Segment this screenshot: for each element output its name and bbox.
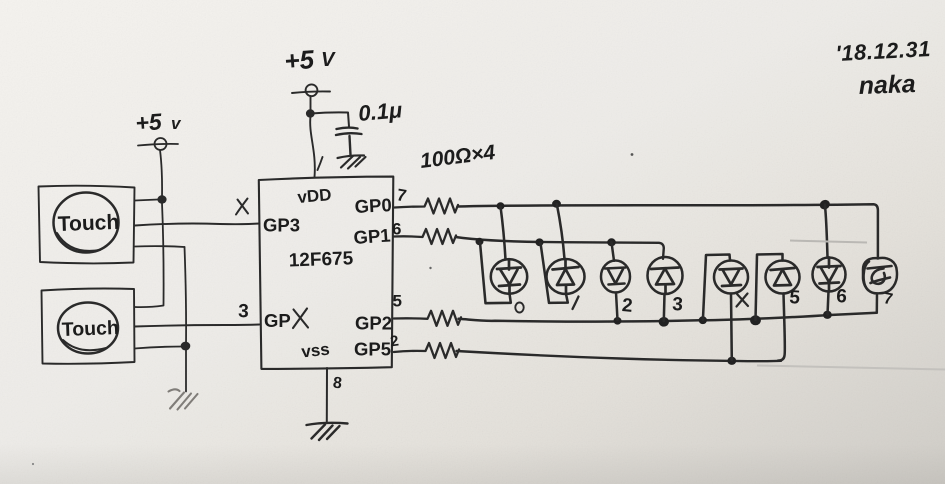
pin number 1 bbox=[318, 157, 323, 170]
pin number 3 bbox=[238, 301, 249, 322]
LED 6 number bbox=[836, 286, 848, 308]
svg-text:+5: +5 bbox=[283, 44, 315, 76]
pin number 2 bbox=[389, 332, 400, 350]
LED 2 bbox=[601, 242, 630, 320]
junction dot GP0/LED1 bbox=[552, 200, 561, 208]
wire GPX from box2 (pin 3) bbox=[135, 325, 260, 327]
svg-text:GP1: GP1 bbox=[353, 224, 391, 248]
touch sensor 2 text bbox=[61, 317, 119, 341]
IC label VDD bbox=[297, 185, 333, 207]
pin number 6 bbox=[392, 220, 401, 239]
junction dot GP2/LED4 bbox=[699, 316, 707, 324]
IC label GP2 bbox=[355, 313, 392, 334]
pin number 8 bbox=[332, 375, 343, 393]
wire box1 lower to vertical bbox=[135, 245, 185, 248]
resistor R4 (GP5) bbox=[394, 343, 459, 358]
ground (left, pencil) bbox=[169, 389, 198, 409]
junction dot touch1 supply bbox=[157, 195, 166, 203]
wire supply down to box2 bbox=[135, 203, 164, 307]
svg-text:6: 6 bbox=[836, 286, 848, 308]
paper speck 2 bbox=[429, 267, 431, 269]
pin number 7 bbox=[395, 185, 408, 205]
junction dot GP0/LED6 bbox=[818, 198, 832, 211]
svg-text:GP: GP bbox=[264, 310, 291, 331]
capacitor C 0.1u bbox=[336, 128, 362, 155]
wire GP1 row bbox=[456, 237, 664, 259]
junction dot GP2/LED3 bbox=[659, 317, 669, 327]
svg-text:GP0: GP0 bbox=[354, 194, 392, 217]
wire VSS to ground bbox=[326, 368, 328, 422]
svg-text:GP5: GP5 bbox=[354, 339, 391, 360]
IC U1 12F675 body bbox=[259, 177, 394, 369]
LED 3 bbox=[648, 257, 683, 321]
LED 4 bbox=[703, 255, 748, 361]
crossed-out pin label X (GP3 wire) bbox=[236, 199, 248, 215]
junction dot GP5/LED4 bbox=[727, 357, 736, 365]
ground (capacitor) bbox=[338, 155, 366, 168]
resistor R2 (GP1) bbox=[394, 229, 456, 244]
LED 5 bbox=[756, 254, 800, 361]
svg-text:vss: vss bbox=[300, 340, 330, 362]
svg-text:v: v bbox=[171, 114, 182, 133]
svg-text:'18.12.31: '18.12.31 bbox=[835, 36, 932, 66]
svg-text:3: 3 bbox=[238, 301, 249, 322]
wire GP5 row bbox=[457, 351, 782, 361]
IC label GP3 bbox=[263, 215, 300, 236]
pin number 5 bbox=[393, 292, 402, 311]
resistor R3 (GP2) bbox=[394, 311, 461, 326]
svg-text:+5: +5 bbox=[135, 108, 164, 136]
svg-text:vDD: vDD bbox=[297, 185, 333, 207]
LED 1 number bbox=[573, 297, 579, 310]
IC label GP1 bbox=[353, 224, 391, 248]
svg-text:GP3: GP3 bbox=[263, 215, 300, 236]
vertical wire to ground (left) bbox=[185, 247, 187, 392]
touch sensor 2 circle bbox=[58, 303, 118, 354]
paper speck 3 bbox=[32, 463, 34, 465]
svg-text:naka: naka bbox=[858, 70, 916, 100]
svg-text:8: 8 bbox=[332, 375, 343, 393]
+5 V label (top) bbox=[283, 44, 336, 76]
LED 0 number bbox=[515, 303, 523, 313]
wire box2 bottom to ground junction bbox=[135, 347, 184, 349]
svg-text:5: 5 bbox=[393, 292, 402, 311]
IC label GP5 bbox=[354, 339, 391, 360]
junction dot GP0/LED0 bbox=[497, 202, 505, 210]
LED 5 number bbox=[789, 287, 801, 309]
junction dot GP2/LED2 bbox=[614, 317, 622, 325]
faint pencil line lower right bbox=[757, 366, 945, 370]
wire GP3 from box1 bbox=[135, 224, 260, 226]
svg-text:12F675: 12F675 bbox=[288, 248, 354, 271]
paper speck 1 bbox=[631, 153, 634, 156]
junction dot GP2/LED5 bbox=[750, 315, 761, 325]
power symbol +5v (left) bbox=[138, 138, 178, 197]
junction dot GP1/LED1 bbox=[535, 238, 543, 246]
resistor R1 (GP0) bbox=[395, 199, 459, 214]
IC label 12F675 bbox=[288, 248, 354, 271]
faint pencil line upper right bbox=[790, 241, 867, 243]
LED 2 number bbox=[621, 295, 633, 317]
LED 1 bbox=[541, 204, 585, 303]
touch sensor 1 box bbox=[39, 186, 135, 264]
svg-text:0.1μ: 0.1μ bbox=[357, 97, 403, 126]
resistor value label 100ohm x4 bbox=[419, 141, 497, 173]
junction dot GP1/LED2 bbox=[607, 238, 616, 246]
wire box1 to supply dot bbox=[135, 200, 158, 201]
LED 7 number bbox=[882, 290, 894, 308]
power symbol +5V (top) bbox=[292, 84, 330, 110]
svg-text:Touch: Touch bbox=[61, 317, 119, 341]
touch sensor 2 box bbox=[42, 289, 135, 364]
svg-text:V: V bbox=[321, 49, 336, 71]
svg-text:3: 3 bbox=[672, 294, 684, 316]
+5v label (left) bbox=[135, 108, 182, 136]
ground (VSS) bbox=[307, 423, 348, 440]
IC label GP0 bbox=[354, 194, 392, 217]
LED 4 number (x-shaped 4) bbox=[737, 294, 749, 307]
signature naka bbox=[858, 70, 916, 100]
wire to capacitor bbox=[311, 112, 349, 126]
date text 18.12.31 bbox=[835, 36, 932, 66]
junction dot GP1/LED0 bbox=[476, 238, 484, 246]
junction dot GP2/LED6 bbox=[823, 311, 832, 319]
svg-text:2: 2 bbox=[621, 295, 633, 317]
wire GP2 row bbox=[459, 313, 877, 322]
svg-text:Touch: Touch bbox=[57, 211, 119, 236]
LED 0 bbox=[480, 207, 527, 304]
IC label VSS bbox=[300, 340, 330, 362]
junction dot ground branch bbox=[181, 342, 191, 351]
junction dot VDD/cap bbox=[306, 109, 315, 117]
capacitor value 0.1u bbox=[357, 97, 403, 126]
LED 3 number bbox=[672, 294, 684, 316]
touch sensor 1 text bbox=[57, 211, 119, 236]
IC label GP4 crossed bbox=[264, 309, 308, 332]
svg-text:GP2: GP2 bbox=[355, 313, 392, 334]
wire VDD supply bbox=[310, 116, 315, 177]
LED 7 bbox=[863, 258, 897, 313]
svg-text:5: 5 bbox=[789, 287, 801, 309]
wire GP0 row bbox=[458, 204, 878, 258]
touch sensor 1 circle bbox=[54, 193, 119, 253]
LED 6 bbox=[813, 205, 846, 315]
